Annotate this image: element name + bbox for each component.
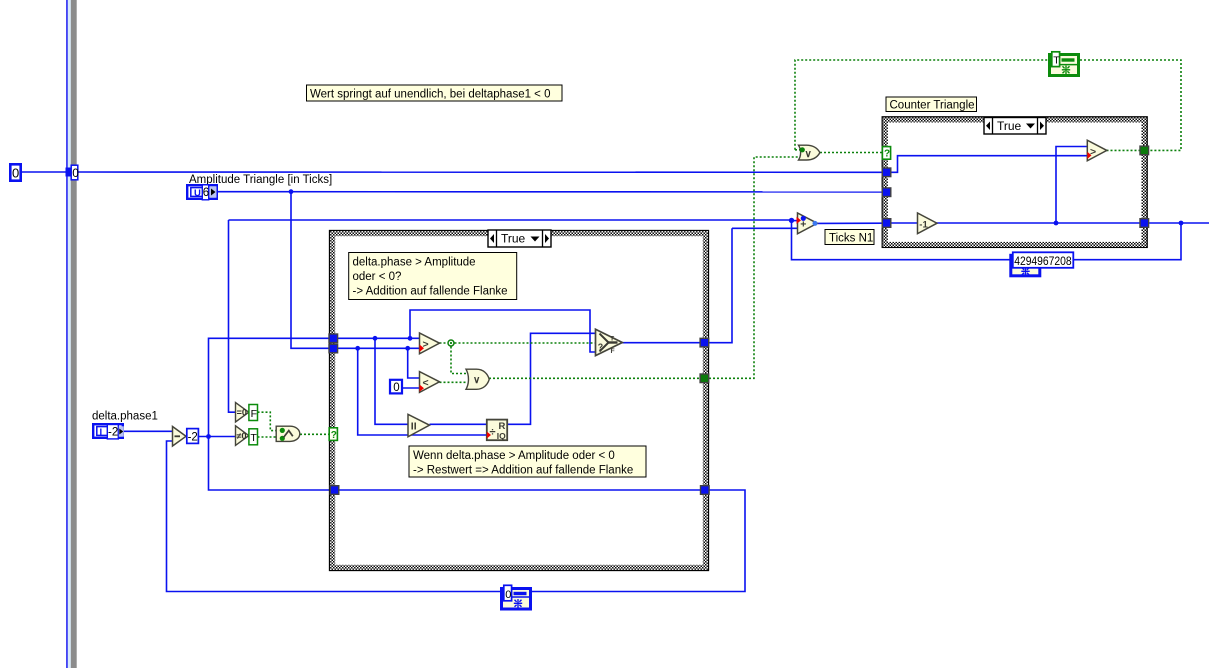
svg-text:-2: -2 xyxy=(108,427,118,439)
svg-text:-> Restwert => Addition auf fa: -> Restwert => Addition auf fallende Fla… xyxy=(413,465,633,477)
free label: Counter Triangle xyxy=(886,97,977,112)
wire: boolean feedback node net xyxy=(795,60,1048,150)
terminal: Amplitude Triangle [in Ticks] xyxy=(187,185,217,200)
svg-text:-1: -1 xyxy=(919,219,928,230)
svg-text:Wert springt auf unendlich, be: Wert springt auf unendlich, bei deltapha… xyxy=(310,89,551,101)
terminal: delta.phase1 xyxy=(93,424,124,439)
svg-text:True: True xyxy=(997,119,1022,133)
or gate (counter area) xyxy=(799,145,820,160)
svg-text:delta.phase > Amplitude: delta.phase > Amplitude xyxy=(353,257,476,269)
svg-text:?: ? xyxy=(598,342,603,352)
svg-text:II: II xyxy=(411,421,417,433)
wire: and gate output to ? tunnel xyxy=(300,433,329,435)
svg-text:0: 0 xyxy=(12,166,19,181)
less-than node xyxy=(420,372,440,393)
tunnel bottom-left xyxy=(330,485,340,495)
numeric feedback node 4294967208 xyxy=(1011,252,1074,275)
constant 0 (middle case) xyxy=(390,380,402,394)
svg-text:0: 0 xyxy=(505,589,511,601)
II node (quotient input) xyxy=(408,414,430,437)
wires inside counter case xyxy=(891,156,1088,173)
tunnel T3 xyxy=(882,218,892,228)
greater-than node (middle case) xyxy=(420,333,440,354)
junction ring green xyxy=(448,340,454,346)
svg-text:≠0: ≠0 xyxy=(237,431,247,441)
wire: add node inputs/output xyxy=(792,220,798,222)
svg-text:Ticks N1: Ticks N1 xyxy=(829,232,873,244)
tunnel ? selector (counter) xyxy=(882,147,890,160)
wire: greater output to junction and select s xyxy=(440,342,449,344)
wire: counter case right tunnel to right edge xyxy=(1148,222,1209,224)
svg-text:0: 0 xyxy=(393,382,399,394)
svg-text:IQ: IQ xyxy=(497,431,506,441)
case selector (middle) True xyxy=(488,230,551,247)
case structure (counter) border xyxy=(882,117,1147,248)
boolean F box xyxy=(249,405,258,421)
or gate (middle case) xyxy=(466,369,489,389)
free label: Wert springt auf unendlich xyxy=(307,85,563,101)
wire: counter greater output to green tunnel xyxy=(1107,149,1141,151)
wire: feedback net horizontal y=220 xyxy=(229,219,792,221)
not-equal-0 node xyxy=(236,426,249,446)
wire: R output up to select T input xyxy=(508,333,596,424)
comment: delta.phase > Amplitude xyxy=(349,253,517,300)
wire: select output to right tunnel xyxy=(622,342,701,344)
svg-text:=0: =0 xyxy=(237,408,247,418)
wire: 0 constant to less-than xyxy=(403,387,420,389)
wire: less output to or xyxy=(440,381,467,383)
constant -2 box at subtract output xyxy=(187,429,199,444)
add node xyxy=(797,213,818,234)
svg-text:<: < xyxy=(423,377,429,389)
tunnel blue (counter right) xyxy=(1139,218,1149,228)
while loop left border bar xyxy=(66,0,77,668)
comment: Wenn delta.phase xyxy=(409,446,646,477)
svg-text:T: T xyxy=(1053,55,1060,67)
svg-text:?: ? xyxy=(331,430,337,441)
wires inside middle case: net B xyxy=(337,347,420,349)
wire: or2 output to ? tunnel xyxy=(820,152,883,154)
tunnel A (delta in) xyxy=(328,333,338,343)
svg-text:I: I xyxy=(100,427,103,438)
svg-text:0: 0 xyxy=(72,166,79,180)
wire: loop tunnel to Counter case tunnel T1 (y=172) xyxy=(78,171,883,173)
select node xyxy=(596,329,623,355)
decrement node -1 xyxy=(918,213,938,234)
tunnel green (counter right) xyxy=(1139,145,1149,155)
svg-text:-> Addition auf fallende Flank: -> Addition auf fallende Flanke xyxy=(353,286,508,298)
quotient and remainder node xyxy=(487,420,507,441)
wire: Amplitude terminal to Counter case tunnel T2 (y=191.7) xyxy=(218,191,883,193)
tunnel T1 xyxy=(882,167,892,177)
wire: delta.phase1 terminal to subtract xyxy=(124,430,173,432)
wire: II output to quotient-remainder xyxy=(430,423,487,425)
wire: vertical x=228.5 down to =0 input xyxy=(229,220,236,412)
junction dots blue xyxy=(289,189,294,194)
wire: bottom pass-through inside middle case xyxy=(338,489,701,491)
svg-text:∨: ∨ xyxy=(473,375,480,386)
svg-text:T: T xyxy=(250,432,257,444)
greater-than node (counter) xyxy=(1087,140,1107,161)
wire: subtract output to not-equal-0 input xyxy=(199,436,236,438)
wire: middle case bottom-right tunnel to bottom feedback node xyxy=(532,490,745,592)
wire: not0 T output to and gate xyxy=(258,436,277,438)
wire: feedback node 4294967208 loop xyxy=(792,220,1014,260)
case selector (counter) True xyxy=(984,118,1046,135)
svg-text:F: F xyxy=(251,408,257,420)
wire: middle case select output tunnel up to add node xyxy=(709,228,732,342)
tunnel ? selector (middle case) xyxy=(329,428,337,441)
wire: green tunnel up to or2 lower input xyxy=(709,157,799,378)
svg-text:?: ? xyxy=(884,149,890,160)
free label: Ticks N1 xyxy=(825,230,874,245)
svg-text:U: U xyxy=(194,188,201,199)
boolean crossing (and-shaped) node xyxy=(276,426,300,441)
equals-0 node xyxy=(236,403,249,423)
svg-text:∨: ∨ xyxy=(805,149,812,160)
tunnel bottom-right xyxy=(700,485,710,495)
svg-text:oder < 0?: oder < 0? xyxy=(353,271,402,283)
wire: Amplitude branch down to tunnel B xyxy=(291,192,330,349)
wire: =0 F output to and gate xyxy=(258,412,277,430)
svg-text:Wenn delta.phase > Amplitude o: Wenn delta.phase > Amplitude oder < 0 xyxy=(413,450,615,462)
loop border tunnel 0 xyxy=(66,165,80,180)
svg-text:True: True xyxy=(501,232,526,246)
svg-text:6: 6 xyxy=(203,187,209,199)
wire: or1 output to right green tunnel xyxy=(489,377,701,379)
svg-text:4294967208: 4294967208 xyxy=(1014,254,1072,268)
wires inside middle case: net A xyxy=(337,337,420,339)
subtract node xyxy=(173,427,187,447)
constant 0 (far left) xyxy=(10,164,20,180)
svg-text:delta.phase1: delta.phase1 xyxy=(92,411,158,423)
case structure (middle) border xyxy=(330,231,709,571)
wire: bottom feedback node to subtract lower input xyxy=(167,441,501,592)
wire: vertical x=208.5 branch (tunnel A / bottom tunnel) xyxy=(209,338,331,490)
svg-text:÷: ÷ xyxy=(490,427,496,439)
boolean T box xyxy=(249,429,258,445)
tunnel T2 xyxy=(882,187,892,197)
tunnel select out (right) xyxy=(699,338,709,348)
tunnel B (amplitude in) xyxy=(328,344,338,354)
svg-text:>: > xyxy=(1090,146,1096,158)
svg-text:-2: -2 xyxy=(188,431,198,443)
svg-text:F: F xyxy=(611,348,615,355)
tunnel green out (right) xyxy=(699,373,709,383)
boolean feedback node T (top) xyxy=(1050,52,1079,76)
svg-text:Counter Triangle: Counter Triangle xyxy=(890,100,975,112)
wire: 0 constant to loop tunnel xyxy=(22,171,66,173)
numeric feedback node 0 (bottom) xyxy=(502,585,531,609)
